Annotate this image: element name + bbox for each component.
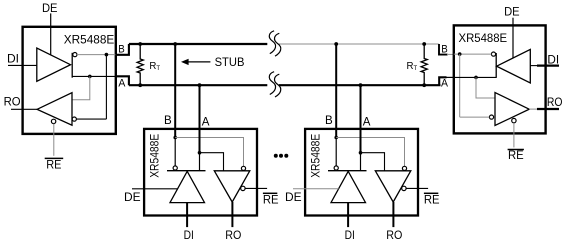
wire A to receiver non-inverting input (U4) <box>476 77 495 98</box>
wire A to receiver non-inverting input <box>72 76 90 99</box>
break mark on bus A <box>269 72 280 97</box>
driver D2 output bar <box>167 170 206 172</box>
transceiver U4 box <box>454 25 546 133</box>
receiver R3 triangle <box>375 171 411 202</box>
node A internal junction (U3) <box>359 151 363 155</box>
svg-text:RE: RE <box>424 195 440 207</box>
label RE (U1) overline <box>45 157 64 159</box>
node B internal junction (U3) <box>334 136 338 140</box>
svg-text:XR5488E: XR5488E <box>459 33 508 45</box>
break mark on bus B <box>269 31 280 56</box>
wire receiver inverting input (U1) <box>76 118 106 120</box>
svg-text:DI: DI <box>7 54 19 66</box>
wire B stub into driver bubble (U3) <box>335 138 337 166</box>
svg-text:DE: DE <box>42 3 58 15</box>
svg-text:A: A <box>441 78 449 90</box>
node bus B junction (U3) <box>334 42 338 46</box>
wire RE to receiver enable (U1) <box>53 124 55 156</box>
svg-text:DE: DE <box>504 6 520 18</box>
svg-text:DE: DE <box>285 192 302 204</box>
driver D4 triangle <box>497 49 531 83</box>
transceiver U1 box <box>23 27 116 134</box>
svg-text:STUB: STUB <box>215 57 245 69</box>
label RE (U2) overline <box>263 192 277 194</box>
wire DI input (U2) <box>186 203 188 228</box>
receiver R3 enable bubble <box>402 186 406 190</box>
wire RE to receiver enable (U2) <box>245 187 267 189</box>
receiver R4 triangle <box>495 93 529 126</box>
svg-text:A: A <box>118 78 126 90</box>
svg-text:RE: RE <box>46 159 62 171</box>
wire A stub into driver bar <box>199 153 201 171</box>
receiver R1 triangle <box>37 93 72 126</box>
pin B stub (U4) <box>439 44 448 55</box>
svg-text:DI: DI <box>345 230 355 242</box>
stub arrow <box>181 59 189 65</box>
svg-text:XR5488E: XR5488E <box>149 134 161 178</box>
wire bus A left segment <box>129 84 267 86</box>
receiver R1 inverting input bubble <box>72 117 76 121</box>
svg-text:RO: RO <box>386 230 402 242</box>
wire DE to driver (U2) <box>132 188 178 190</box>
svg-text:RO: RO <box>547 97 563 109</box>
wire A to receiver non-inverting input (U3) <box>361 153 385 171</box>
receiver R2 enable bubble <box>241 186 245 190</box>
node A internal junction (U4) <box>474 76 478 80</box>
node bus B junction (U2) <box>173 42 177 46</box>
svg-text:DI: DI <box>184 230 194 242</box>
wire A to receiver non-inverting input (U2) <box>200 153 224 171</box>
node B internal junction (U4) <box>458 52 462 56</box>
wire RO output (U4) <box>529 108 538 110</box>
wire A internal (U1) <box>72 75 115 77</box>
wire receiver inverting input (U4) <box>460 116 490 118</box>
node A internal junction (U1) <box>88 75 92 79</box>
driver D3 triangle <box>331 171 366 202</box>
wire bus B left segment <box>129 43 267 45</box>
node A internal junction (U2) <box>198 151 202 155</box>
wire RE to receiver enable (U3) <box>406 187 428 189</box>
wire DI input <box>8 64 37 66</box>
wire DI input (U3) <box>347 203 349 228</box>
wire B to receiver inverting input (U3) <box>336 138 404 167</box>
node RT2 top junction <box>422 42 426 46</box>
resistor RT1 <box>137 44 143 85</box>
wire bus B stub to U2 <box>174 44 176 138</box>
node bus A junction (U3) <box>359 83 363 87</box>
driver D2 triangle <box>170 171 205 202</box>
svg-text:T: T <box>156 66 160 72</box>
wire B internal (U1) <box>77 54 115 56</box>
wire DI input (U4) <box>530 65 538 67</box>
svg-text:T: T <box>414 66 418 72</box>
node B internal junction (U2) <box>173 136 177 140</box>
svg-text:B: B <box>441 44 448 56</box>
wire DE to driver (U4) <box>512 18 514 59</box>
driver D4 output bar <box>495 53 497 78</box>
driver D3 output bar <box>328 170 367 172</box>
svg-text:RO: RO <box>4 96 21 108</box>
receiver R4 inverting input bubble <box>489 115 493 119</box>
node B internal junction (U1) <box>105 53 109 57</box>
wire A internal (U4) <box>454 76 496 78</box>
receiver R2 inverting input bubble <box>241 166 245 170</box>
pin B stub (U1) <box>116 44 129 55</box>
pin A stub (U1) <box>116 76 129 85</box>
wire B to receiver inverting input (U4) <box>459 54 461 117</box>
wire B stub into driver bubble <box>174 138 176 166</box>
label RE (U3) overline <box>424 192 438 194</box>
label RE (U4) overline <box>508 149 524 151</box>
wire RO output (U3) <box>392 202 394 227</box>
driver D4 inverting bubble <box>491 52 495 56</box>
svg-text:A: A <box>363 117 371 129</box>
driver D1 inverting bubble <box>73 53 77 57</box>
wire bus A stub to U2 <box>199 85 201 153</box>
resistor RT2 <box>421 44 427 85</box>
wire DE to driver U1 <box>50 13 52 54</box>
driver D1 triangle <box>37 48 71 81</box>
svg-text:XR5488E: XR5488E <box>64 34 115 46</box>
receiver R2 triangle <box>214 171 250 202</box>
svg-text:RO: RO <box>225 230 241 242</box>
node RT1 bottom junction <box>138 83 142 87</box>
receiver R3 inverting input bubble <box>402 166 406 170</box>
svg-text:XR5488E: XR5488E <box>310 134 322 178</box>
node RT1 top junction <box>138 42 142 46</box>
svg-text:RE: RE <box>508 150 524 162</box>
svg-text:A: A <box>202 117 210 129</box>
svg-text:B: B <box>118 43 125 55</box>
svg-text:B: B <box>164 115 172 127</box>
wire bus A stub to U3 <box>360 85 362 153</box>
transceiver U3 box <box>305 129 418 216</box>
receiver R4 enable bubble <box>512 118 516 122</box>
wire bus B right segment (thin) <box>279 43 439 45</box>
wire A stub into driver bar (U3) <box>360 153 362 171</box>
driver D3 inverting bubble <box>334 166 338 170</box>
wire bus A right segment <box>279 84 441 86</box>
svg-text:RE: RE <box>263 195 279 207</box>
receiver R1 enable bubble <box>51 119 55 123</box>
wire B to receiver inverting input (U2) <box>175 138 243 167</box>
wire bus B stub to U3 <box>335 44 337 138</box>
wire RE to receiver enable (U4) <box>513 123 515 148</box>
svg-text:B: B <box>325 115 333 127</box>
svg-text:R: R <box>149 61 156 72</box>
pin A stub (U4) <box>439 77 446 85</box>
transceiver U2 box <box>144 129 257 216</box>
svg-text:R: R <box>407 61 414 72</box>
wire RO output (U1) <box>11 108 37 110</box>
wire B to receiver inverting input <box>105 55 107 120</box>
node bus A junction (U2) <box>198 83 202 87</box>
wire DE to driver (U3) <box>293 188 339 190</box>
svg-text:DE: DE <box>124 192 141 204</box>
driver D2 inverting bubble <box>173 166 177 170</box>
driver D1 output bar <box>71 53 73 78</box>
node RT2 bottom junction <box>422 83 426 87</box>
wire B internal (U4) <box>454 53 492 55</box>
wire RO output (U2) <box>231 202 233 227</box>
